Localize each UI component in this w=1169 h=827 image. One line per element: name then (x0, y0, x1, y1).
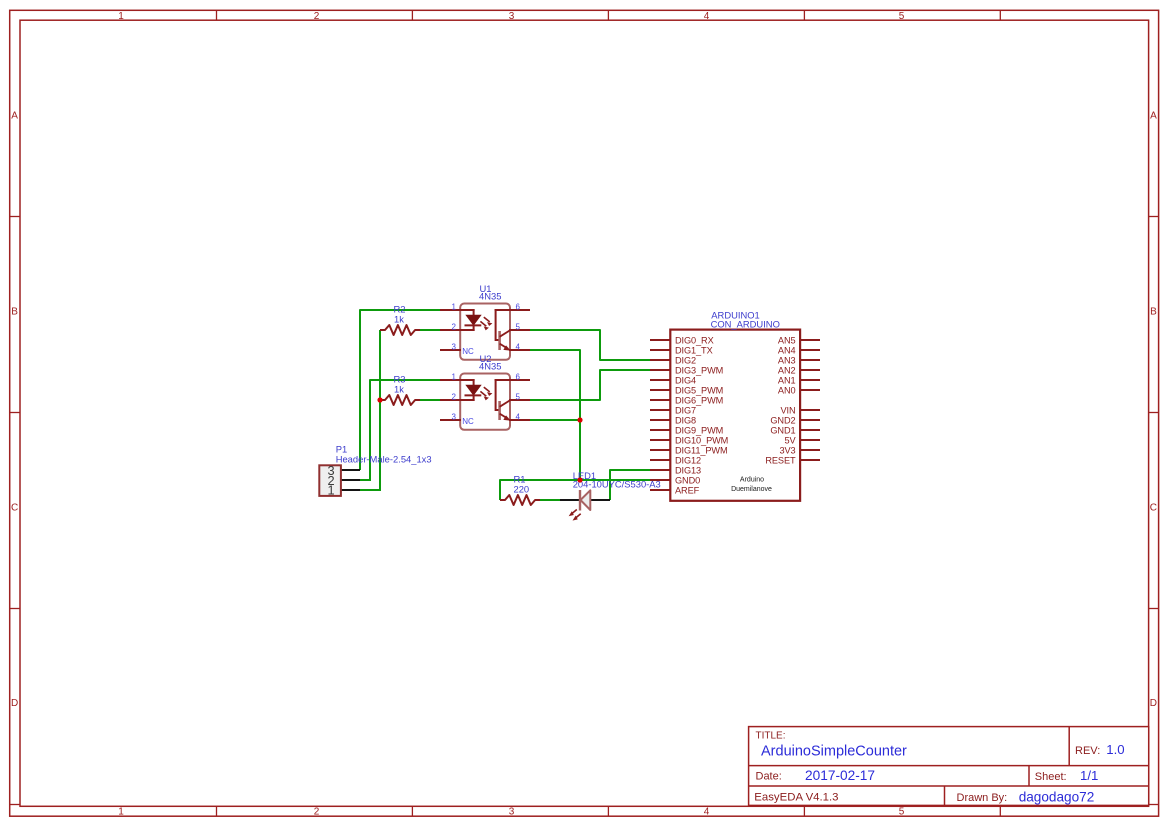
svg-text:1/1: 1/1 (1080, 768, 1098, 783)
svg-text:DIG9_PWM: DIG9_PWM (675, 425, 723, 435)
wire P1 pin1 stub-link (359, 489, 381, 491)
svg-text:D: D (11, 698, 18, 709)
svg-text:1: 1 (452, 303, 457, 312)
svg-text:AN3: AN3 (778, 355, 796, 365)
svg-text:1k: 1k (394, 314, 404, 325)
svg-text:5: 5 (899, 11, 905, 22)
svg-text:AN2: AN2 (778, 365, 796, 375)
wire R2 to U1 pin2 (420, 329, 440, 331)
svg-text:204-10UYC/S530-A3: 204-10UYC/S530-A3 (573, 479, 661, 490)
wire R1 to LED1 cathode (540, 499, 560, 501)
svg-text:6: 6 (516, 373, 521, 382)
svg-text:DIG8: DIG8 (675, 415, 696, 425)
svg-text:2: 2 (314, 11, 320, 22)
resistor R2 (380, 325, 420, 335)
resistor R3 (380, 395, 420, 405)
junction node LED net/GND0 (577, 477, 582, 482)
LED LED1 (560, 490, 610, 520)
wire ARDUINO1 DIG13 to LED1 anode (610, 470, 650, 500)
svg-text:EasyEDA V4.1.3: EasyEDA V4.1.3 (754, 792, 838, 804)
svg-text:3: 3 (452, 413, 457, 422)
svg-text:4: 4 (704, 807, 710, 818)
svg-text:TITLE:: TITLE: (756, 731, 786, 742)
connector P1 (319, 463, 360, 498)
wire GND0 to R1 top (500, 480, 650, 500)
title block (749, 727, 1149, 806)
svg-text:4N35: 4N35 (479, 291, 501, 302)
svg-text:AN1: AN1 (778, 375, 796, 385)
svg-text:DIG3_PWM: DIG3_PWM (675, 365, 723, 375)
svg-text:1: 1 (118, 807, 124, 818)
optocoupler U1 (440, 304, 530, 360)
IC ARDUINO1 CON_ARDUINO (650, 330, 820, 501)
svg-text:AN0: AN0 (778, 385, 796, 395)
wire U1 pin5 to ARDUINO1 DIG2 (530, 330, 650, 360)
wire U2 pin4 to junction (530, 419, 581, 421)
svg-text:DIG2: DIG2 (675, 355, 696, 365)
svg-text:DIG0_RX: DIG0_RX (675, 335, 714, 345)
svg-text:3: 3 (509, 807, 515, 818)
svg-text:GND1: GND1 (770, 425, 795, 435)
svg-text:DIG13: DIG13 (675, 465, 701, 475)
svg-text:5: 5 (516, 393, 521, 402)
svg-text:DIG10_PWM: DIG10_PWM (675, 435, 728, 445)
svg-text:DIG4: DIG4 (675, 375, 696, 385)
wire U2 pin5 to ARDUINO1 DIG3 (530, 370, 650, 400)
svg-text:4N35: 4N35 (479, 361, 501, 372)
optocoupler U2 (440, 374, 530, 430)
svg-text:5V: 5V (784, 435, 796, 445)
svg-text:dagodago72: dagodago72 (1019, 790, 1095, 805)
svg-text:C: C (1150, 503, 1157, 514)
svg-text:NC: NC (462, 347, 474, 356)
svg-text:Header-Male-2.54_1x3: Header-Male-2.54_1x3 (336, 453, 432, 464)
junction node R3/P1.1 (377, 397, 382, 402)
svg-text:5: 5 (899, 807, 905, 818)
junction node U1.4/U2.4 (577, 417, 582, 422)
svg-text:GND2: GND2 (770, 415, 795, 425)
svg-text:B: B (1150, 307, 1157, 318)
svg-text:Arduino: Arduino (740, 477, 764, 484)
svg-text:1: 1 (327, 483, 334, 498)
svg-text:DIG6_PWM: DIG6_PWM (675, 395, 723, 405)
svg-text:DIG7: DIG7 (675, 405, 696, 415)
svg-text:3: 3 (509, 11, 515, 22)
svg-text:3V3: 3V3 (779, 445, 795, 455)
svg-text:Date:: Date: (756, 770, 782, 782)
svg-text:DIG11_PWM: DIG11_PWM (675, 445, 728, 455)
svg-text:RESET: RESET (765, 455, 796, 465)
svg-text:GND0: GND0 (675, 475, 700, 485)
svg-text:A: A (1150, 111, 1157, 122)
svg-text:Duemilanove: Duemilanove (731, 486, 772, 493)
resistor R1 (500, 495, 540, 505)
svg-text:DIG5_PWM: DIG5_PWM (675, 385, 723, 395)
svg-text:2: 2 (452, 393, 457, 402)
svg-text:4: 4 (516, 413, 521, 422)
svg-text:Sheet:: Sheet: (1035, 771, 1067, 783)
svg-text:220: 220 (514, 484, 530, 495)
svg-text:1k: 1k (394, 384, 404, 395)
svg-text:5: 5 (516, 323, 521, 332)
svg-text:Drawn By:: Drawn By: (957, 792, 1008, 804)
svg-text:VIN: VIN (780, 405, 795, 415)
svg-text:DIG1_TX: DIG1_TX (675, 345, 713, 355)
wire U1 pin4 down to LED net (530, 350, 580, 480)
svg-text:4: 4 (516, 343, 521, 352)
wire P1 pin1 to R2/R3 left (379, 330, 381, 491)
svg-text:ArduinoSimpleCounter: ArduinoSimpleCounter (761, 744, 907, 760)
svg-text:3: 3 (452, 343, 457, 352)
wire P1 pin2 to U2 pin1 (370, 380, 440, 481)
svg-text:6: 6 (516, 303, 521, 312)
svg-text:DIG12: DIG12 (675, 455, 701, 465)
svg-text:1: 1 (452, 373, 457, 382)
wire R3 to U2 pin2 (420, 399, 440, 401)
svg-text:AREF: AREF (675, 485, 700, 495)
svg-text:4: 4 (704, 11, 710, 22)
svg-text:CON_ARDUINO: CON_ARDUINO (711, 319, 780, 330)
svg-text:C: C (11, 503, 18, 514)
svg-text:AN4: AN4 (778, 345, 796, 355)
svg-text:1.0: 1.0 (1106, 742, 1124, 757)
svg-text:D: D (1150, 698, 1157, 709)
svg-text:2: 2 (314, 807, 320, 818)
svg-text:2: 2 (452, 323, 457, 332)
svg-text:REV:: REV: (1075, 745, 1100, 757)
svg-text:2017-02-17: 2017-02-17 (805, 768, 875, 783)
svg-text:NC: NC (462, 417, 474, 426)
wire P1 pin2 stub-link (359, 479, 371, 481)
svg-text:B: B (11, 307, 18, 318)
wire P1 pin3 to U1 pin1 (360, 310, 440, 470)
svg-text:1: 1 (118, 11, 124, 22)
svg-text:AN5: AN5 (778, 335, 796, 345)
svg-text:A: A (11, 111, 18, 122)
